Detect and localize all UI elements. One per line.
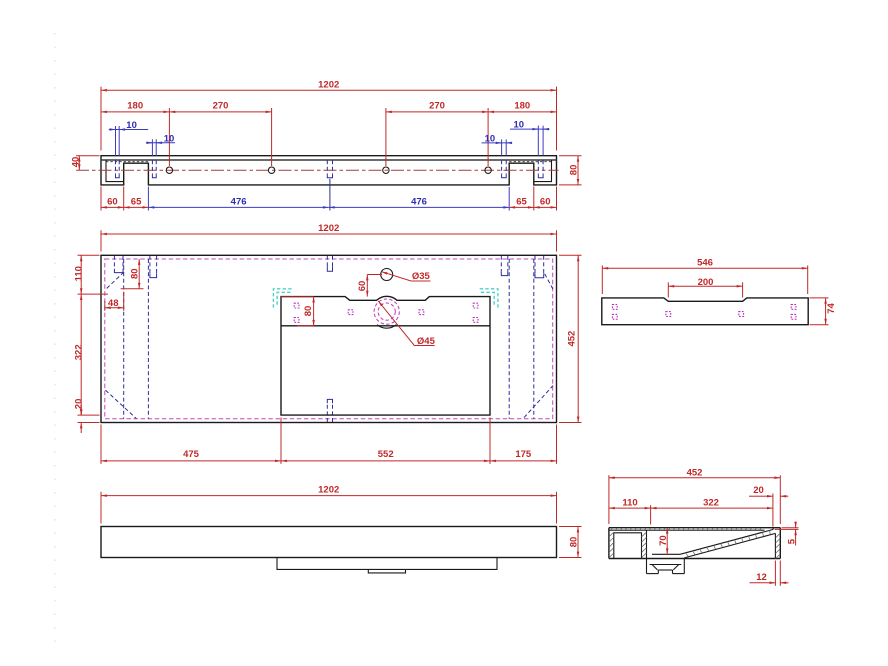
svg-text:10: 10 (164, 133, 175, 144)
plan view: fixing clip square 1 (hidden) (294, 303, 299, 308)
plan dim 1202: extension lines (101, 230, 557, 251)
front dim 40: line and text (70, 156, 81, 171)
plan view: basin rectangle with tap deck recess (281, 296, 490, 415)
front dim 10 slot D (482, 133, 513, 155)
svg-text:1202: 1202 (318, 79, 339, 90)
template view: fixing clip square 5 (hidden) (791, 305, 796, 310)
svg-text:175: 175 (515, 449, 532, 460)
svg-text:475: 475 (183, 449, 200, 460)
svg-text:476: 476 (231, 197, 247, 208)
section dim 110 (609, 497, 651, 508)
template view: fixing clip square 4 (hidden) (739, 312, 744, 317)
plan view: keyhole slot B (hidden) (150, 256, 157, 278)
svg-text:10: 10 (514, 120, 525, 131)
elevation view: body rectangle (101, 527, 557, 558)
plan dim 475 (101, 449, 281, 461)
template dim 200: extension lines (668, 282, 742, 297)
front dim row 180/270: extension lines (169, 108, 488, 166)
front dim 60 right (534, 197, 557, 208)
front view: keyhole slot D (hidden) (502, 160, 507, 178)
plan view: faucet hole diameter 35 (381, 269, 393, 281)
svg-text:10: 10 (126, 120, 137, 131)
svg-text:452: 452 (566, 331, 577, 347)
elevation dim 80: line and text (568, 527, 579, 558)
elevation dim 80: extension lines (559, 527, 582, 558)
front view: keyhole slot A (hidden) (116, 160, 120, 178)
svg-text:322: 322 (73, 344, 84, 360)
template dim 74: extension lines (810, 298, 829, 325)
template dim 546: extension lines (602, 265, 807, 294)
section dim 322 (651, 497, 773, 508)
plan view: keyhole slot E (hidden) (535, 256, 544, 278)
section view: bottom edge (609, 558, 780, 560)
front dim 180 left (101, 100, 169, 112)
front dim 80: extension lines (559, 156, 582, 185)
plan dim 110 (73, 255, 84, 294)
plan dim 60: extension and line (357, 275, 382, 297)
section dim 12: extension lines (775, 561, 780, 586)
plan view: fixing clip square 4 (hidden) (419, 310, 424, 315)
svg-text:452: 452 (687, 467, 703, 478)
plan dim 175 (490, 449, 557, 461)
front dim 65 right (509, 197, 534, 208)
plan dim 80: line and text (121, 259, 144, 289)
plan dim 1202: line and text (101, 223, 557, 234)
plan view: tap deck edge line (281, 325, 490, 327)
svg-text:476: 476 (411, 197, 427, 208)
template view: fixing clip square 2 (hidden) (612, 314, 617, 319)
svg-text:80: 80 (568, 537, 579, 548)
section view: left outer wall (608, 528, 610, 559)
section view: top rim edge (609, 527, 780, 529)
svg-text:40: 40 (70, 157, 81, 168)
svg-text:1202: 1202 (318, 485, 339, 496)
plan label diameter 45: leader and text (378, 301, 435, 347)
template view: fixing clip square 3 (hidden) (666, 312, 671, 317)
svg-text:80: 80 (130, 268, 141, 279)
page fold mark (faint dotted line) (54, 33, 56, 648)
plan label diameter 35: leader and text (382, 271, 431, 282)
svg-text:270: 270 (429, 100, 445, 111)
svg-text:12: 12 (756, 572, 767, 583)
section dim 5: line and text (786, 522, 797, 546)
front view: right foot inner cavity (534, 160, 552, 182)
template dim 74: line and text (826, 298, 838, 325)
section view: section hatching (609, 528, 780, 559)
svg-text:180: 180 (514, 100, 530, 111)
elevation view: drain stub (368, 569, 405, 573)
section view: sloped floor bottom line (684, 533, 775, 558)
svg-text:180: 180 (127, 100, 143, 111)
front dim 10 slot A (109, 120, 148, 156)
svg-text:48: 48 (108, 298, 119, 309)
front dim 1202: line and text (101, 79, 557, 90)
plan left dims: extension lines (78, 255, 109, 422)
section dim 5: extension lines (775, 528, 799, 530)
plan view: outer rectangle (101, 255, 557, 422)
section view: top rim inner edge (609, 529, 765, 531)
template view: fixing clip square 1 (hidden) (612, 305, 617, 310)
plan bottom dims: extension lines (101, 418, 557, 464)
plan view: drain flange circle (hidden) (374, 299, 399, 324)
section view: rail right wall (646, 530, 648, 558)
front bottom dims: extension lines (101, 187, 557, 211)
plan view: fixing clip square 3 (hidden) (348, 310, 353, 315)
front dim 10 slot E (510, 120, 550, 156)
svg-text:80: 80 (568, 165, 579, 176)
svg-text:Ø35: Ø35 (412, 271, 431, 282)
front view: keyhole slot B (hidden) (152, 160, 156, 178)
plan dim 80 deck: line and text (281, 297, 314, 326)
elevation dim 1202: line and text (101, 485, 557, 496)
svg-text:552: 552 (378, 449, 394, 460)
svg-text:5: 5 (786, 538, 797, 544)
section view: basin floor flat top (652, 553, 680, 555)
front dim 80: line and text (568, 156, 579, 185)
plan dim 48: line and text (105, 292, 124, 311)
section dim 12: line and text (750, 572, 789, 583)
front view: center extension to dim line (329, 179, 331, 211)
front view: mounting hole 2 (268, 167, 274, 173)
front view: rear rim edge line (101, 159, 557, 161)
front dim 1202: extension lines (101, 87, 557, 151)
front view: hidden edge dashes right (509, 161, 551, 163)
plan view: fixing clip square 6 (hidden) (473, 318, 478, 323)
svg-text:65: 65 (131, 197, 142, 208)
section dim 452: line and text (609, 467, 780, 478)
svg-text:546: 546 (697, 257, 713, 268)
svg-text:1202: 1202 (318, 223, 339, 234)
plan dim 452: line and text (566, 255, 578, 422)
plan view: center slot bottom (hidden) (327, 399, 332, 422)
section dim 70 (658, 528, 669, 555)
plan view: corner diagonal top-left (hidden) (106, 272, 125, 290)
section view: rail cavity (614, 533, 642, 559)
template view: outline with top notch (602, 298, 808, 325)
section view: right inner wall (774, 533, 776, 558)
elevation view: basin bulge underside (277, 558, 497, 570)
svg-text:322: 322 (703, 497, 719, 508)
section view: slope top corner (772, 528, 774, 530)
plan dim 322 (73, 294, 84, 415)
template dim 546: line and text (602, 257, 807, 268)
plan view: corner diagonal bottom-right (hidden) (524, 386, 553, 418)
svg-text:70: 70 (658, 535, 669, 546)
front dim 476 left (148, 197, 328, 208)
svg-text:80: 80 (303, 306, 314, 317)
elevation dim 1202: extension lines (101, 492, 557, 524)
svg-text:10: 10 (485, 133, 496, 144)
plan dim 452: extension lines (559, 255, 582, 422)
section dim 20: line and text (749, 485, 788, 496)
front view: mounting hole 4 (485, 167, 491, 173)
front view: hidden edge dashes left (106, 161, 148, 163)
plan view: drain recess circle bottom arc (377, 325, 396, 328)
plan view: drain hole diameter 45 (hidden) (378, 303, 395, 320)
front dim 40: extension lines (76, 155, 100, 157)
front view: mounting hole 1 (166, 167, 172, 173)
section dims 110/322: extension line (650, 505, 652, 524)
svg-text:200: 200 (698, 277, 714, 288)
template dim 200: line and text (668, 277, 742, 288)
front dim 180 right (488, 100, 556, 112)
plan view: keyhole slot D (hidden) (501, 256, 508, 276)
front view: mounting hole 3 (383, 167, 389, 173)
plan view: keyhole slot A (hidden) (114, 256, 123, 273)
svg-text:270: 270 (213, 100, 229, 111)
plan dim 20 (73, 399, 84, 433)
section dim 20: extension line (772, 494, 774, 527)
section view: sloped floor top line (680, 529, 773, 554)
plan view: inner offset outline (hidden) (105, 259, 553, 419)
plan dim 552 (281, 449, 490, 461)
plan view: corner diagonal bottom-left (hidden) (106, 390, 137, 418)
front dim 476 right (329, 197, 509, 208)
plan view: corner diagonal top-right (hidden) (545, 274, 553, 290)
front view: keyhole slot E (hidden) (538, 160, 543, 178)
svg-text:65: 65 (516, 197, 527, 208)
front dim 60 left (101, 197, 124, 208)
front dim 270 right (386, 100, 488, 112)
svg-text:110: 110 (622, 497, 637, 508)
front dim 65 left (124, 197, 149, 208)
svg-text:60: 60 (107, 197, 118, 208)
front view: center slot (hidden) (327, 160, 332, 178)
front view: red centerline through holes (76, 169, 559, 171)
front dim 10 slot B (146, 133, 175, 155)
front dim 270 left (169, 100, 271, 112)
svg-text:60: 60 (540, 197, 551, 208)
front view: wall bracket outline (101, 156, 557, 185)
svg-text:110: 110 (73, 266, 84, 281)
front view: left foot inner cavity (106, 160, 124, 182)
svg-text:20: 20 (73, 399, 84, 410)
section dim 452: extension lines (609, 475, 780, 524)
plan view: towel rail bracket left (hidden) (273, 289, 293, 308)
svg-text:60: 60 (357, 281, 368, 292)
template view: fixing clip square 6 (hidden) (791, 314, 796, 319)
svg-text:74: 74 (826, 303, 837, 314)
section view: drain sump outline (647, 559, 685, 574)
section view: right outer wall (779, 528, 781, 559)
plan view: hidden foot edge lines (124, 259, 534, 419)
plan view: center slot top (hidden) (327, 256, 332, 271)
plan view: fixing clip square 5 (hidden) (473, 303, 478, 308)
plan view: fixing clip square 2 (hidden) (294, 318, 299, 323)
plan view: towel rail bracket right (hidden) (478, 289, 498, 308)
svg-text:20: 20 (753, 485, 764, 496)
svg-text:Ø45: Ø45 (417, 336, 436, 347)
